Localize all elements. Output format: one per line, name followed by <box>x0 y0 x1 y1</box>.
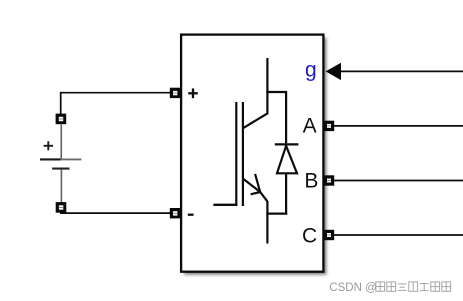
port C square <box>324 230 334 240</box>
wire battery- to block - <box>60 212 174 214</box>
IGBT Q1 body bar <box>242 102 244 206</box>
wire B <box>332 180 463 182</box>
port - square <box>170 208 180 218</box>
IGBT Q1 collector lead <box>266 58 268 114</box>
battery V1 bottom lead <box>60 170 62 204</box>
port B square <box>324 175 334 185</box>
svg-text:C: C <box>302 224 317 247</box>
label - (block port) <box>188 214 194 216</box>
svg-text:g: g <box>305 59 317 82</box>
node top (collector to diode cathode) <box>266 92 286 143</box>
wire battery+ to block + <box>61 93 174 115</box>
diode D1 cathode bar <box>275 143 299 145</box>
arrowhead g input <box>326 63 341 80</box>
diode D1 triangle <box>277 146 297 174</box>
terminal handle battery + <box>56 114 67 125</box>
svg-text:B: B <box>304 169 318 192</box>
port A square <box>324 121 334 131</box>
wire g signal <box>340 70 463 72</box>
IGBT Q1 emitter arrow barb upper <box>255 174 260 192</box>
battery V1 positive plate <box>40 158 61 160</box>
IGBT Q1 emitter diagonal <box>243 179 267 202</box>
battery V1 negative plate <box>52 168 69 170</box>
battery V1 top lead <box>60 125 62 160</box>
node bottom (emitter to diode anode) <box>266 213 287 215</box>
block U1 body (IGBT/Diode bridge) <box>181 35 323 272</box>
IGBT Q1 collector diagonal <box>243 113 267 128</box>
wire A <box>332 125 463 127</box>
svg-text:A: A <box>303 114 317 137</box>
wire C <box>332 234 463 236</box>
block U1 shadow <box>184 38 326 275</box>
watermark CJK glyph blocks <box>376 282 451 291</box>
IGBT Q1 emitter lead <box>266 201 268 244</box>
terminal handle battery - <box>56 202 67 213</box>
diode D1 anode lead <box>285 173 287 214</box>
battery V1 plus label <box>44 141 53 150</box>
IGBT Q1 emitter arrow barb lower <box>251 192 261 194</box>
IGBT Q1 gate bar <box>235 102 237 206</box>
label + (block port) <box>188 88 198 98</box>
port + square <box>170 88 180 98</box>
IGBT Q1 gate lead <box>213 204 237 206</box>
svg-text:CSDN @: CSDN @ <box>329 282 376 294</box>
